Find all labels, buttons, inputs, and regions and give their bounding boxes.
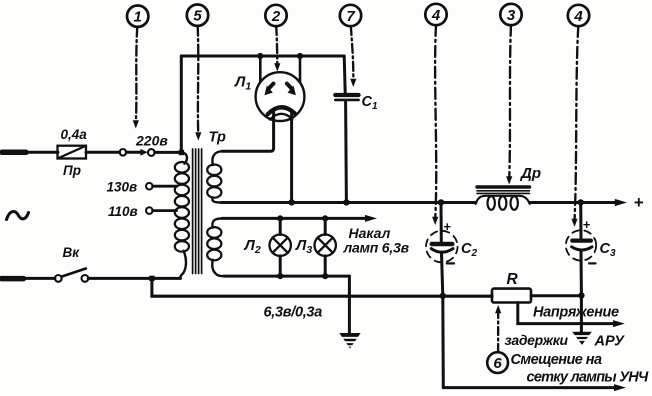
connector plug (arrow into socket) <box>120 149 155 156</box>
transformer heater secondary winding <box>207 218 224 276</box>
capacitor C1 <box>335 94 378 203</box>
wire: long bottom return wire to R <box>152 295 492 298</box>
AC tilde symbol <box>7 212 29 220</box>
svg-text:6,3в/0,3а: 6,3в/0,3а <box>264 305 323 321</box>
svg-text:110в: 110в <box>108 204 138 219</box>
node on top rail (right anode) <box>297 53 303 59</box>
transformer Тр core <box>193 130 226 274</box>
svg-text:6: 6 <box>493 355 502 372</box>
callout circle 4 (left) <box>425 4 446 225</box>
svg-text:задержки: задержки <box>505 332 569 348</box>
svg-text:ламп 6,3в: ламп 6,3в <box>343 240 410 256</box>
svg-text:R: R <box>507 271 519 288</box>
node: 220v junction <box>179 150 184 155</box>
lamp Л2 <box>244 218 291 276</box>
label Накал ламп 6,3в <box>343 225 410 256</box>
wire: junction drop <box>150 278 153 296</box>
svg-text:+: + <box>443 219 451 234</box>
svg-text:4: 4 <box>573 8 583 25</box>
svg-text:4: 4 <box>431 7 441 24</box>
svg-text:+: + <box>634 193 644 212</box>
B+ output arrow <box>615 199 627 206</box>
svg-text:2: 2 <box>271 8 281 25</box>
wire: input to fuse <box>24 151 58 154</box>
wire: fuse to connector <box>86 151 120 154</box>
wire: R tap to АРУ output arrow <box>518 303 625 328</box>
node: C3 on rail <box>578 199 584 205</box>
svg-text:Напряжение: Напряжение <box>533 305 619 321</box>
callout circle 3 <box>500 4 521 185</box>
svg-text:130в: 130в <box>107 180 138 195</box>
callout circle 4 (right) <box>568 5 589 227</box>
wire: heater top rail with arrow <box>222 215 377 222</box>
node: C2 lead crossing junction <box>440 293 446 299</box>
wire: tube cathode left lead to HV winding <box>222 112 274 152</box>
wire: B+ rail right of choke <box>530 201 616 204</box>
wire: top anode rail <box>181 55 344 58</box>
transformer primary winding <box>175 152 189 278</box>
callout circle 6 <box>487 305 508 373</box>
svg-text:Тр: Тр <box>209 130 226 146</box>
svg-text:С1: С1 <box>362 94 378 112</box>
rectifier tube U Л1 <box>234 56 304 121</box>
svg-text:Вк: Вк <box>63 245 81 260</box>
ground (АРУ mini chassis) <box>572 332 592 345</box>
resistor R <box>492 271 531 303</box>
transformer HV secondary winding <box>207 151 222 202</box>
node: lamp Л2 bottom <box>277 273 283 279</box>
node: C2 on rail <box>438 199 444 205</box>
svg-text:Л1: Л1 <box>234 74 251 93</box>
wire: tube cathode right lead down to B+ rail <box>290 111 293 203</box>
callout circle 1 <box>127 6 148 129</box>
wire: C2 lead down to bias line <box>441 296 445 388</box>
lamp Л3 <box>295 218 336 276</box>
capacitor C3 (electrolytic) <box>566 202 616 295</box>
svg-text:сетку лампы УНЧ: сетку лампы УНЧ <box>527 370 650 386</box>
wire: heater bottom rail <box>224 275 349 278</box>
wire: bias output line with arrow <box>443 384 626 391</box>
node: R right lead / C3 junction <box>578 292 584 298</box>
svg-text:Л3: Л3 <box>295 237 312 256</box>
svg-text:Др: Др <box>519 165 541 182</box>
svg-text:С2: С2 <box>461 241 477 259</box>
ground (chassis) <box>339 333 360 349</box>
svg-text:Смещение на: Смещение на <box>511 352 602 368</box>
svg-text:5: 5 <box>193 8 202 25</box>
svg-text:С3: С3 <box>600 241 616 259</box>
svg-text:АРУ: АРУ <box>594 334 626 350</box>
wire: vertical riser to top rail <box>180 56 183 152</box>
wire: heater rail drop to ground <box>348 276 351 333</box>
callout circle 2 <box>265 5 286 72</box>
svg-text:3: 3 <box>507 7 516 24</box>
tap 130в <box>107 180 177 195</box>
node: tube cathode on rail <box>288 199 294 205</box>
node: lamp Л3 top <box>322 215 328 221</box>
svg-text:Л2: Л2 <box>244 237 261 256</box>
svg-text:0,4а: 0,4а <box>61 127 88 142</box>
svg-text:+: + <box>583 217 591 232</box>
callout circle 7 <box>340 5 361 87</box>
wire: C3 down to AРУ ground <box>580 296 583 332</box>
wire: top AC input stub <box>2 150 26 156</box>
node: lamp Л2 top <box>277 215 283 221</box>
svg-text:1: 1 <box>134 9 142 26</box>
callout circle 5 <box>187 5 208 141</box>
node: C1 on rail <box>343 199 349 205</box>
wire: switch to transformer primary bottom <box>88 277 180 280</box>
wire: B+ rail left of choke <box>221 201 476 204</box>
svg-text:Пр: Пр <box>63 163 81 178</box>
wire: connector to transformer node <box>155 151 182 154</box>
wire: R right lead <box>531 294 581 297</box>
fuse Пр 0,4a <box>58 127 88 178</box>
node on top rail (left anode) <box>257 53 263 59</box>
svg-text:7: 7 <box>346 8 355 25</box>
svg-text:220в: 220в <box>135 132 168 148</box>
capacitor C2 (electrolytic) <box>426 202 477 296</box>
node: lamp Л3 bottom <box>322 273 328 279</box>
choke Др <box>476 165 542 210</box>
node: switch wire junction <box>149 276 154 281</box>
wire: corner down to C1 <box>344 56 345 93</box>
switch Вк <box>2 245 89 282</box>
tap 110в <box>108 204 177 219</box>
